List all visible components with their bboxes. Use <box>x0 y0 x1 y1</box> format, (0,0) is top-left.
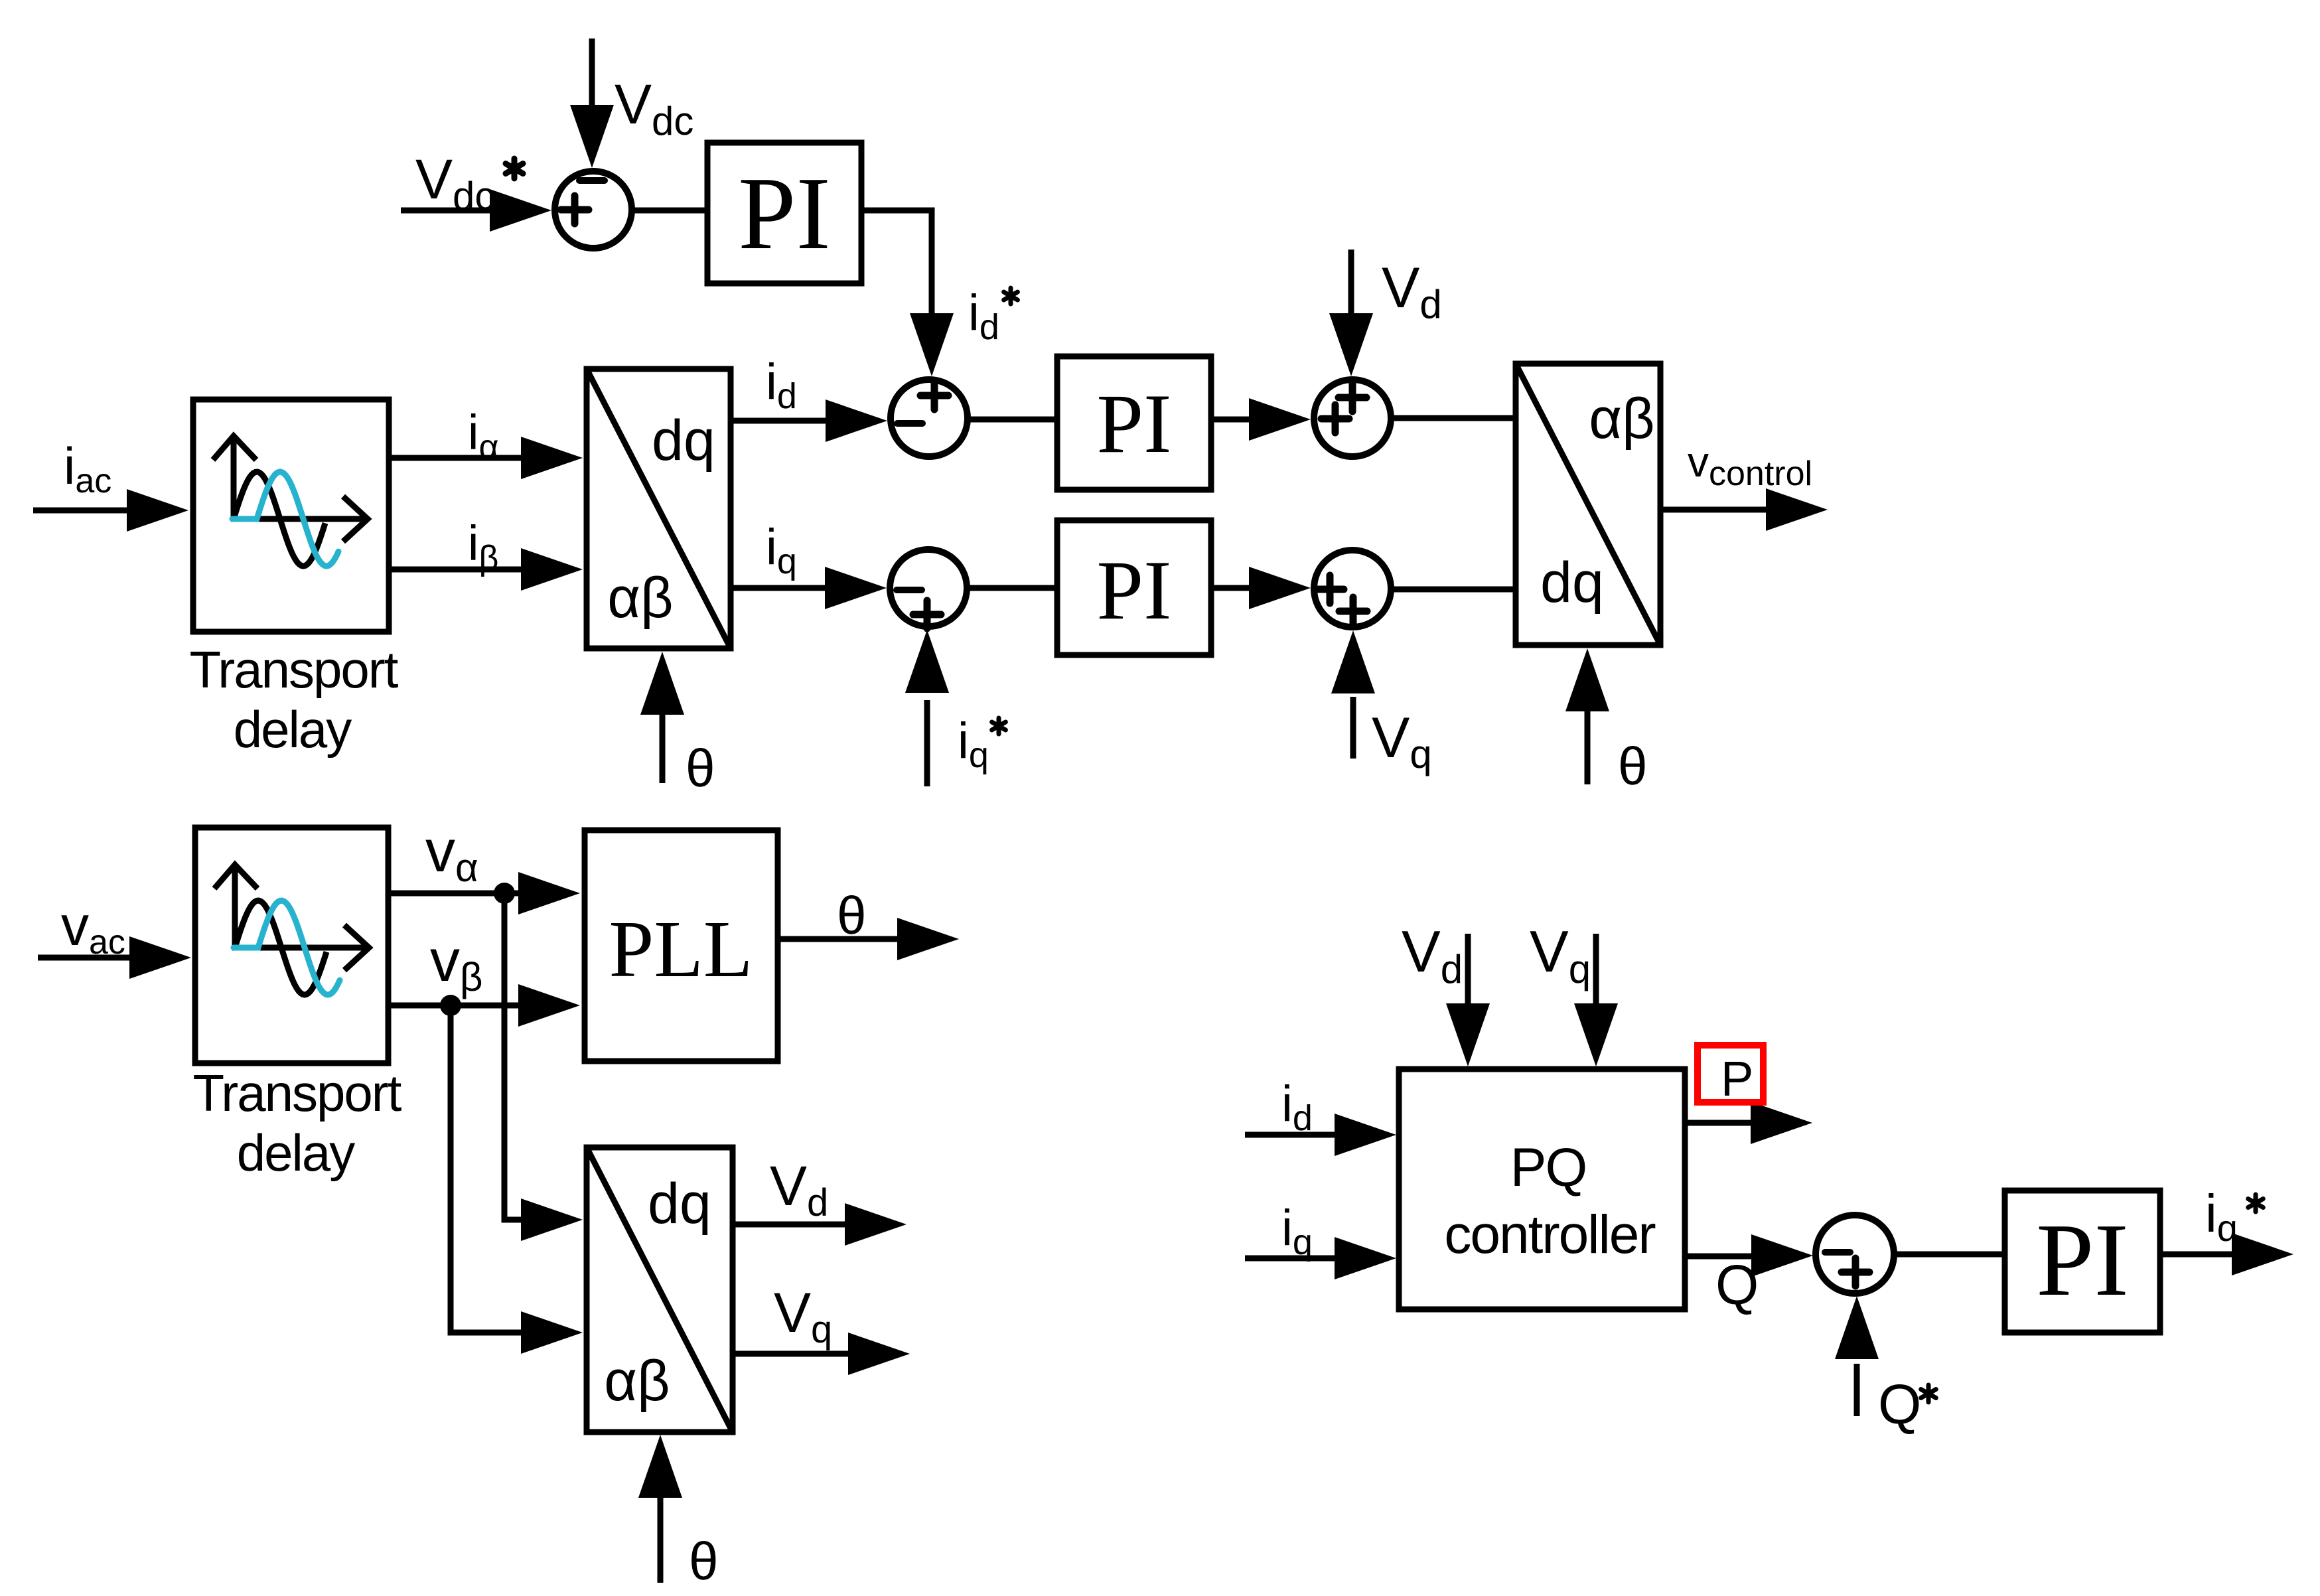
wire Vdc* input arrow into S1 <box>401 189 551 232</box>
label v-alpha <box>425 818 478 890</box>
block PI4 (reactive power PI) <box>2005 1191 2160 1333</box>
sum junction S5 (vq = PI + Vq) <box>1314 550 1391 627</box>
wire iq* into S3 (up arrow) <box>905 630 949 786</box>
label Transport delay 2 <box>193 1064 402 1182</box>
wire S6 to PI4 <box>1894 1252 2005 1258</box>
block PI1 (DC-link voltage PI) <box>707 143 861 283</box>
block Transport delay 1 (current measurement) <box>193 399 389 632</box>
svg-text:θ: θ <box>686 739 715 798</box>
wire iac input arrow <box>33 489 188 532</box>
svg-text:PLL: PLL <box>609 905 753 994</box>
label id into PQ controller <box>1281 1076 1313 1138</box>
label Vd feedforward <box>1382 256 1442 326</box>
wire PI2 to S4 <box>1211 398 1311 441</box>
svg-text:αβ: αβ <box>604 1349 670 1413</box>
wire Q output into S6 <box>1685 1234 1813 1277</box>
label iq into PQ controller <box>1281 1200 1313 1262</box>
block dq-to-alpha-beta inverse transform (alpha-beta over dq) <box>1516 364 1660 645</box>
block Transport delay 2 (voltage measurement) <box>195 828 388 1063</box>
wire v-alpha into PLL <box>389 872 580 914</box>
wire PI1 to S2 (id* path with down arrow) <box>861 210 954 376</box>
wire v_control output arrow <box>1660 488 1828 531</box>
wire S3 to PI3 <box>967 585 1057 591</box>
wire Vd output arrow <box>733 1203 906 1246</box>
svg-text:Transport: Transport <box>193 1064 402 1122</box>
label Q output <box>1715 1254 1759 1316</box>
node v-beta junction dot <box>440 995 461 1016</box>
svg-text:PI: PI <box>738 155 831 271</box>
svg-text:PI: PI <box>1097 544 1172 637</box>
label v_control <box>1688 438 1812 493</box>
label iq* <box>958 713 1005 775</box>
label i-beta <box>468 516 498 577</box>
svg-text:PQ: PQ <box>1510 1137 1586 1198</box>
block PQ controller <box>1399 1069 1685 1309</box>
wire Vd into PQ controller (down arrow) <box>1446 934 1490 1066</box>
wire v-beta down to transform 3 <box>451 1005 583 1354</box>
wire i-alpha into dq block <box>389 437 583 479</box>
sum junction S1 (Vdc error) <box>555 171 632 248</box>
sum junction S3 (iq error) <box>890 549 967 628</box>
wire S1 to PI1 <box>632 208 707 214</box>
svg-text:θ: θ <box>837 886 867 945</box>
sum junction S4 (vd = PI + Vd) <box>1314 380 1391 457</box>
label Transport delay 1 <box>190 640 399 759</box>
wire v-alpha down to transform 3 <box>504 893 583 1241</box>
wire theta into transform 3 <box>638 1435 682 1583</box>
svg-text:αβ: αβ <box>607 566 673 630</box>
node v-alpha junction dot <box>494 883 515 904</box>
wire id from transform 1 to S2 <box>731 399 887 442</box>
svg-text:θ: θ <box>1618 737 1648 796</box>
svg-text:delay: delay <box>237 1124 355 1182</box>
wire theta into transform 1 <box>640 652 684 783</box>
label theta 2 <box>1618 737 1648 796</box>
block abc-to-dq transform 1 (dq over alpha-beta) <box>587 369 731 648</box>
label theta PLL output <box>837 886 867 945</box>
label theta 3 <box>689 1532 719 1591</box>
wire PI3 to S5 <box>1211 567 1311 609</box>
label Vd into PQ controller <box>1402 918 1463 991</box>
wire theta into inverse transform <box>1565 648 1609 784</box>
svg-text:PI: PI <box>2036 1202 2129 1317</box>
wire Q* into S6 (up arrow) <box>1835 1296 1879 1416</box>
svg-text:delay: delay <box>234 700 352 759</box>
wire S5 to inverse transform <box>1391 587 1516 593</box>
label vac <box>61 895 125 962</box>
label id <box>766 354 797 416</box>
wire Vq into PQ controller (down arrow) <box>1574 934 1618 1066</box>
label iac <box>64 437 111 500</box>
label P output <box>1721 1051 1753 1106</box>
svg-text:dq: dq <box>648 1172 711 1236</box>
svg-text:dq: dq <box>1540 551 1604 615</box>
svg-text:P: P <box>1721 1051 1753 1106</box>
svg-text:αβ: αβ <box>1589 387 1654 451</box>
block PI3 (q-axis current PI) <box>1057 520 1211 655</box>
wire v-beta into PLL <box>389 984 580 1027</box>
label iq* output <box>2205 1184 2263 1249</box>
wire Vq output arrow <box>733 1333 910 1375</box>
wire vac input arrow <box>38 936 191 979</box>
wire theta output of PLL <box>778 918 959 960</box>
block abc-to-dq transform 3 (dq over alpha-beta) <box>587 1147 733 1432</box>
sum junction S6 (Q error) <box>1816 1215 1894 1293</box>
label Vq into PQ controller <box>1530 918 1591 991</box>
svg-text:controller: controller <box>1444 1204 1655 1265</box>
wire id into PQ controller <box>1245 1114 1396 1156</box>
wire Vq feedforward into S5 (up arrow) <box>1331 630 1375 759</box>
svg-text:Q: Q <box>1878 1373 1921 1435</box>
label i-alpha <box>468 405 499 467</box>
label Q* <box>1878 1373 1936 1435</box>
wire S2 to PI2 <box>968 417 1057 423</box>
highlight box around P (red) <box>1698 1045 1763 1102</box>
label Vq feedforward <box>1372 706 1432 776</box>
wire Vd feedforward into S4 (down arrow) <box>1329 250 1373 376</box>
wire S4 to inverse transform <box>1391 415 1516 421</box>
wire i-beta into dq block <box>389 548 583 591</box>
label theta 1 <box>686 739 715 798</box>
label Vdc <box>615 73 693 143</box>
svg-text:Transport: Transport <box>190 640 399 699</box>
sum junction S2 (id error) <box>891 380 968 457</box>
wire iq into PQ controller <box>1245 1237 1396 1279</box>
label Vq output <box>774 1281 832 1351</box>
wire Vdc feedback into S1 (vertical arrow) <box>570 38 614 168</box>
block PLL <box>585 830 778 1061</box>
label id* <box>968 285 1017 347</box>
block PI2 (d-axis current PI) <box>1057 356 1211 490</box>
svg-text:Q: Q <box>1715 1254 1759 1316</box>
svg-text:PI: PI <box>1097 378 1172 471</box>
svg-text:dq: dq <box>652 409 715 472</box>
label iq <box>766 519 797 581</box>
label Vdc* (setpoint) <box>415 148 523 218</box>
wire iq from transform 1 to S3 <box>731 567 887 609</box>
label Vd output <box>770 1155 828 1224</box>
wire iq* output arrow <box>2160 1233 2293 1275</box>
wire P output arrow <box>1685 1102 1812 1144</box>
svg-text:θ: θ <box>689 1532 719 1591</box>
label v-beta <box>430 928 483 999</box>
